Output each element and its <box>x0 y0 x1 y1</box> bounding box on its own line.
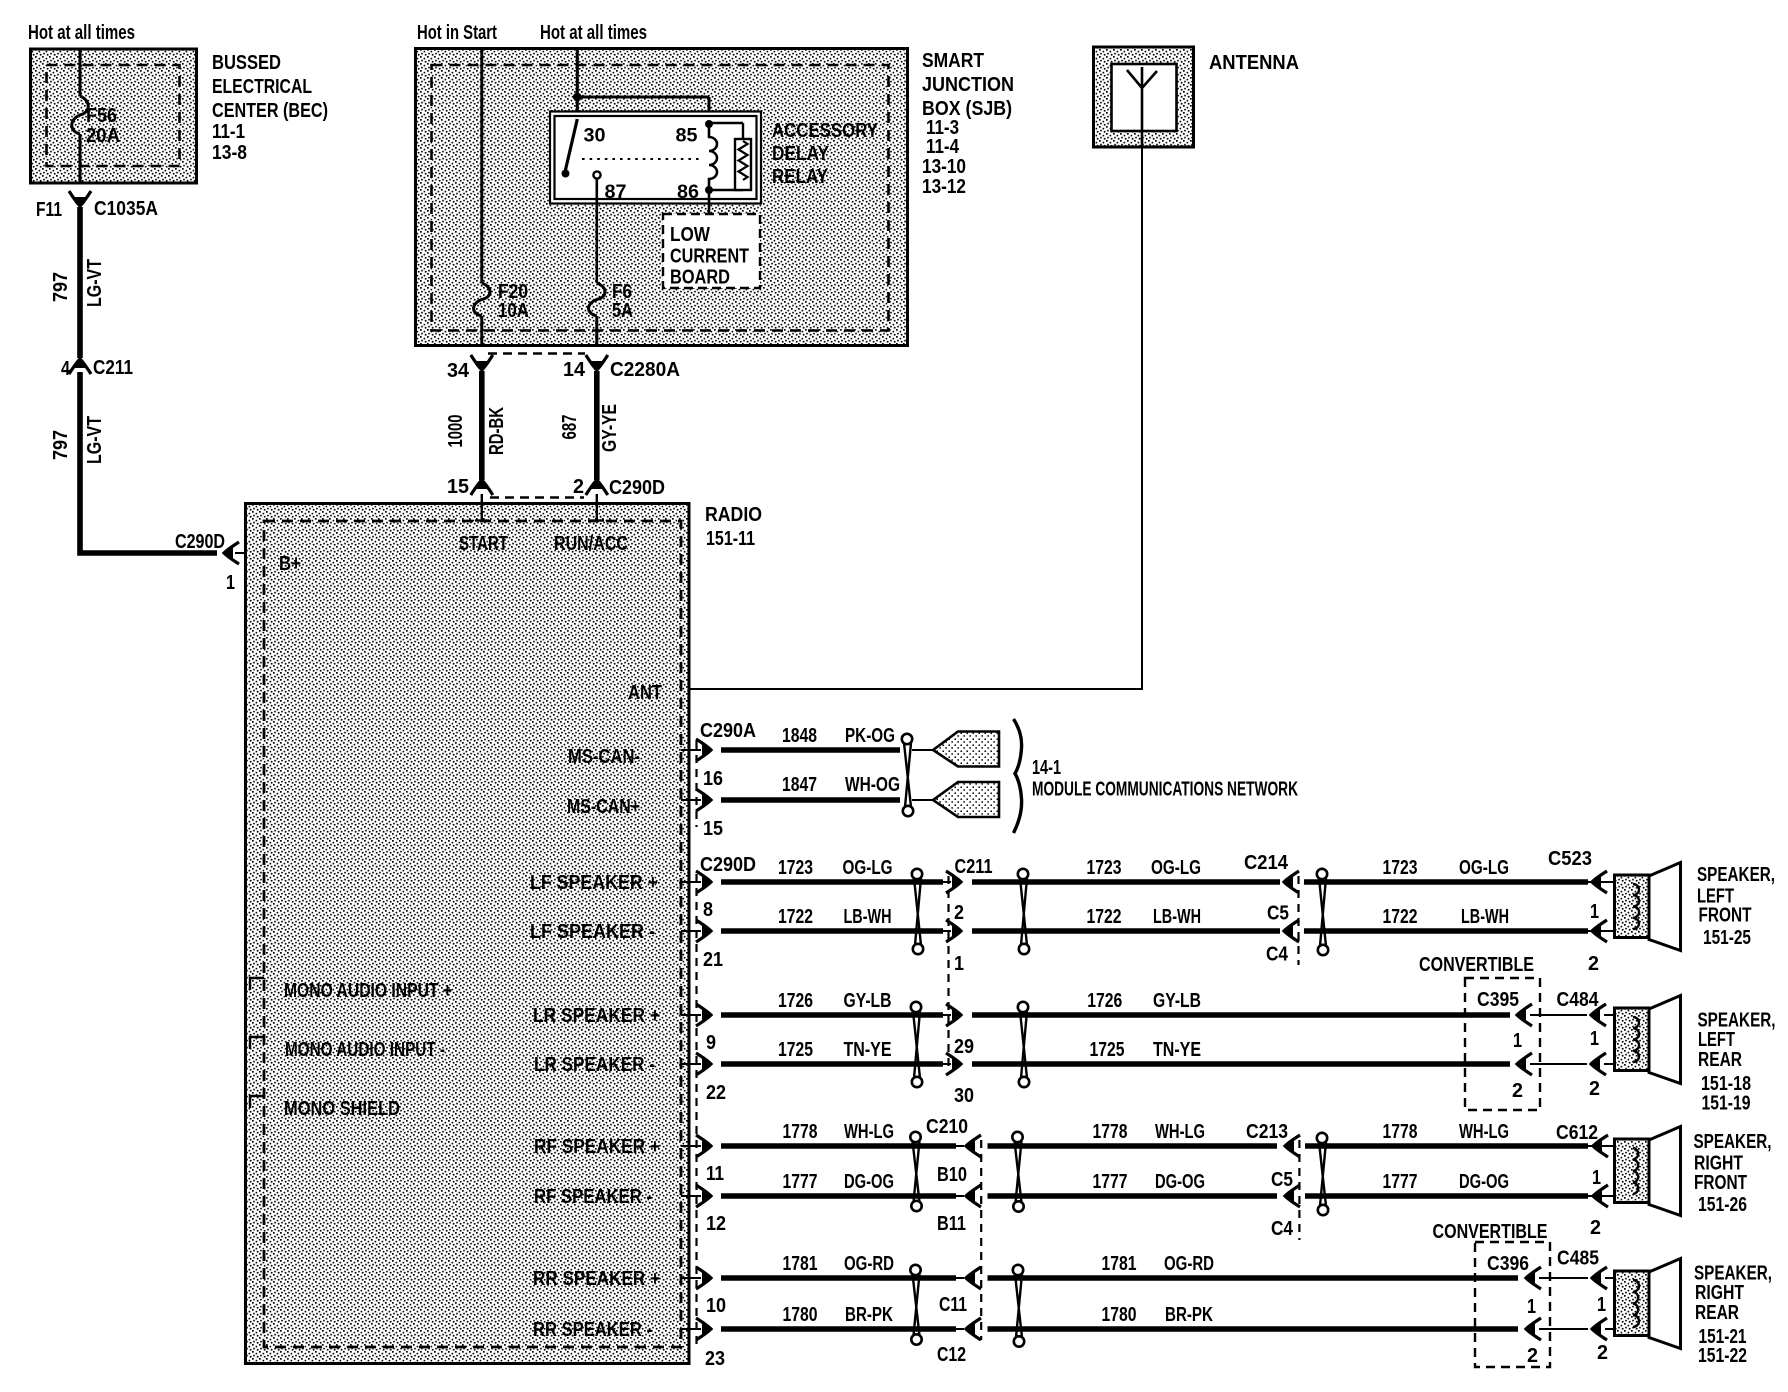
wire radio pin LR- exit + arrow <box>681 1063 701 1065</box>
svg-text:REAR: REAR <box>1695 1302 1739 1324</box>
svg-text:C213: C213 <box>1246 1121 1288 1143</box>
svg-text:1777: 1777 <box>1383 1171 1418 1193</box>
connector C210 arrow C12 <box>965 1323 975 1335</box>
wire 797 LG-VT lower segment <box>80 372 217 553</box>
wire 1777 DG-OG segment 1 <box>721 1193 956 1199</box>
svg-text:1778: 1778 <box>1383 1121 1418 1143</box>
connector C395 arrow pin 2 <box>1516 1058 1526 1070</box>
twisted pair symbol (RF seg2) <box>1012 1132 1022 1142</box>
svg-text:1780: 1780 <box>1102 1304 1137 1326</box>
svg-text:LR SPEAKER +: LR SPEAKER + <box>533 1005 660 1027</box>
svg-text:Hot at all times: Hot at all times <box>28 22 135 44</box>
svg-text:10: 10 <box>706 1295 726 1317</box>
wire BEC feed into fuse <box>79 49 82 96</box>
wire 1722 LB-WH segment 1 <box>721 928 943 934</box>
wire 1722 LB-WH segment 3 <box>1304 928 1588 934</box>
svg-text:C290A: C290A <box>700 720 756 742</box>
svg-text:16: 16 <box>703 768 723 790</box>
svg-text:30: 30 <box>584 126 606 147</box>
svg-text:15: 15 <box>447 476 469 498</box>
wire RD-BK label <box>486 407 508 455</box>
antenna box <box>1094 47 1194 147</box>
svg-text:C210: C210 <box>926 1116 968 1138</box>
relay contact (pin 87) <box>593 171 600 178</box>
wire 1778 WH-LG segment 2 <box>988 1143 1278 1149</box>
svg-text:30: 30 <box>954 1085 974 1107</box>
convertible dashed box (C395) <box>1465 978 1540 1110</box>
svg-text:CONVERTIBLE: CONVERTIBLE <box>1433 1221 1548 1243</box>
wire 1848 PK-OG <box>721 747 900 753</box>
svg-text:RR SPEAKER +: RR SPEAKER + <box>533 1268 660 1290</box>
wire Hot in Start vertical <box>480 49 483 284</box>
connector C210 arrow C11 <box>965 1272 975 1284</box>
svg-text:RD-BK: RD-BK <box>486 407 508 455</box>
speaker left front <box>1615 875 1650 938</box>
wire 687 label <box>559 415 581 440</box>
svg-text:11-1: 11-1 <box>212 121 245 143</box>
connector C523 arrow pin 1 <box>1591 876 1601 888</box>
mono audio input - stub <box>250 1037 264 1049</box>
svg-text:1777: 1777 <box>1093 1171 1128 1193</box>
antenna inner box <box>1112 64 1177 131</box>
twisted pair symbol (RR seg2) <box>1013 1265 1023 1275</box>
wire 1781 OG-RD segment 2 <box>988 1275 1519 1281</box>
svg-text:MONO AUDIO INPUT +: MONO AUDIO INPUT + <box>284 980 452 1002</box>
wire LG-VT label (lower) <box>84 416 106 464</box>
wire 1723 OG-LG segment 2 <box>972 879 1280 885</box>
svg-text:B11: B11 <box>937 1213 966 1235</box>
svg-text:22: 22 <box>706 1082 726 1104</box>
svg-text:WH-LG: WH-LG <box>844 1121 894 1143</box>
wire 797 label (lower) <box>50 430 72 460</box>
svg-text:Hot at all times: Hot at all times <box>540 22 647 44</box>
svg-text:5A: 5A <box>612 300 633 322</box>
svg-text:C211: C211 <box>93 357 133 379</box>
svg-text:B+: B+ <box>279 553 301 575</box>
low current board dashed box <box>663 214 760 288</box>
svg-text:C396: C396 <box>1487 1253 1529 1275</box>
wire Hot at all times vertical to relay 30 <box>576 49 579 121</box>
svg-text:2: 2 <box>1588 953 1599 975</box>
svg-text:SPEAKER,: SPEAKER, <box>1694 1131 1772 1153</box>
connector C290D arrow at radio B+ (pin 1) <box>223 547 233 559</box>
svg-text:4: 4 <box>61 358 71 380</box>
connector C214 arrow (C4) <box>1283 925 1293 937</box>
wire radio pin RR+ exit + arrow <box>681 1277 701 1279</box>
svg-text:151-26: 151-26 <box>1698 1194 1747 1216</box>
svg-text:12: 12 <box>706 1213 726 1235</box>
connector C484 arrow pin 1 <box>1590 1009 1600 1021</box>
svg-text:1778: 1778 <box>1093 1121 1128 1143</box>
svg-text:DG-OG: DG-OG <box>1155 1171 1205 1193</box>
wire 1725 TN-YE segment 1 <box>721 1061 943 1067</box>
svg-text:C1035A: C1035A <box>94 198 158 220</box>
svg-text:C12: C12 <box>937 1344 966 1366</box>
connector C290D dashed line (right) <box>695 874 697 1350</box>
wire pin 2 into radio (RUN/ACC) <box>596 494 598 521</box>
svg-text:C395: C395 <box>1477 989 1519 1011</box>
connector C396 arrow pin 2 <box>1525 1323 1535 1335</box>
wire radio pin MS-CAN- exit + arrow <box>681 749 701 751</box>
wire relay 87 to fuse F6 <box>595 179 598 284</box>
mono shield stub <box>250 1096 264 1108</box>
twisted pair symbol (LF seg3) <box>1317 869 1327 879</box>
svg-text:1: 1 <box>1597 1294 1606 1316</box>
svg-text:85: 85 <box>676 126 698 147</box>
connector C2280A dashed line <box>488 352 585 354</box>
wire 797 label (upper) <box>50 272 72 302</box>
wire GY-YE label <box>599 404 621 452</box>
wire radio pin LF- exit + arrow <box>681 930 701 932</box>
connector C213 dashed line <box>1298 1140 1300 1240</box>
brace for module communications network <box>1014 719 1022 833</box>
svg-text:10A: 10A <box>498 300 529 322</box>
connector C485 arrow pin 2 <box>1591 1323 1601 1335</box>
svg-text:87: 87 <box>605 182 627 203</box>
twisted pair symbol (RR seg1) <box>910 1265 920 1275</box>
svg-text:DG-OG: DG-OG <box>1459 1171 1509 1193</box>
connector C485 arrow pin 1 <box>1591 1272 1601 1284</box>
svg-text:1723: 1723 <box>1087 857 1122 879</box>
svg-text:CENTER (BEC): CENTER (BEC) <box>212 100 328 122</box>
svg-text:86: 86 <box>677 182 699 203</box>
svg-text:2: 2 <box>1589 1078 1600 1100</box>
svg-text:C2280A: C2280A <box>610 359 680 381</box>
junction node at relay feed <box>573 93 582 102</box>
svg-text:797: 797 <box>50 430 72 460</box>
svg-text:RR SPEAKER -: RR SPEAKER - <box>533 1319 652 1341</box>
svg-text:MS-CAN-: MS-CAN- <box>568 746 640 768</box>
connector C211 arrow (pin 4) <box>74 358 86 368</box>
svg-text:1723: 1723 <box>1383 857 1418 879</box>
svg-text:F56: F56 <box>86 105 117 127</box>
svg-text:ELECTRICAL: ELECTRICAL <box>212 76 312 98</box>
svg-text:C523: C523 <box>1548 848 1592 870</box>
svg-text:11: 11 <box>706 1163 724 1185</box>
relay coil <box>705 120 713 128</box>
svg-text:1781: 1781 <box>1102 1253 1137 1275</box>
svg-text:LOW: LOW <box>670 224 710 246</box>
svg-text:BR-PK: BR-PK <box>845 1304 893 1326</box>
svg-text:OG-LG: OG-LG <box>1459 857 1509 879</box>
svg-text:WH-OG: WH-OG <box>845 774 900 796</box>
svg-text:DG-OG: DG-OG <box>844 1171 894 1193</box>
connector C290D pin 2 arrow <box>591 479 603 489</box>
svg-text:C612: C612 <box>1556 1122 1598 1144</box>
svg-text:B10: B10 <box>937 1164 967 1186</box>
svg-text:23: 23 <box>705 1348 725 1370</box>
connector C395 arrow pin 1 <box>1516 1009 1526 1021</box>
svg-text:TN-YE: TN-YE <box>844 1039 892 1061</box>
connector C612 arrow pin 1 <box>1592 1140 1602 1152</box>
svg-text:RF SPEAKER -: RF SPEAKER - <box>534 1186 652 1208</box>
svg-text:151-11: 151-11 <box>706 528 755 550</box>
svg-text:1780: 1780 <box>783 1304 818 1326</box>
connector C211 arrow pin 2 <box>952 876 962 888</box>
wire radio pin RF+ exit + arrow <box>681 1145 701 1147</box>
svg-text:1: 1 <box>1513 1030 1522 1052</box>
svg-text:151-22: 151-22 <box>1698 1345 1747 1367</box>
network flag (MS-CAN-) <box>933 732 999 767</box>
wire radio pin RR- exit + arrow <box>681 1328 701 1330</box>
wire coil branch vertical to pin 85 <box>708 97 711 124</box>
svg-text:797: 797 <box>50 272 72 302</box>
connector C210 arrow B10 <box>965 1140 975 1152</box>
svg-text:29: 29 <box>954 1036 974 1058</box>
svg-text:1777: 1777 <box>783 1171 818 1193</box>
connector C211 dashed line (mid) <box>947 876 949 1072</box>
svg-text:1778: 1778 <box>783 1121 818 1143</box>
svg-text:OG-LG: OG-LG <box>843 857 893 879</box>
svg-text:1725: 1725 <box>778 1039 813 1061</box>
connector C211 arrow pin 29 <box>952 1009 962 1021</box>
svg-text:C5: C5 <box>1267 903 1289 925</box>
relay box inner border <box>555 116 757 199</box>
speaker right front <box>1615 1139 1650 1203</box>
svg-text:OG-RD: OG-RD <box>844 1253 894 1275</box>
wire relay 86 to low current board <box>708 190 711 215</box>
connector C612 arrow pin 2 <box>1592 1190 1602 1202</box>
twisted pair symbol (LR seg1) <box>911 1002 921 1012</box>
connector C210 arrow B11 <box>965 1190 975 1202</box>
svg-text:ANTENNA: ANTENNA <box>1209 52 1299 74</box>
radio inner dashed border <box>264 521 681 1347</box>
svg-text:2: 2 <box>954 902 964 924</box>
svg-text:WH-LG: WH-LG <box>1459 1121 1509 1143</box>
svg-text:C290D: C290D <box>700 854 756 876</box>
connector C214 dashed line <box>1297 876 1299 965</box>
wire radio pin MS-CAN+ exit + arrow <box>681 799 701 801</box>
svg-text:8: 8 <box>703 899 713 921</box>
connector C2280A pin 14 arrow <box>591 361 603 371</box>
svg-text:WH-LG: WH-LG <box>1155 1121 1205 1143</box>
relay linkage dotted line <box>582 158 700 160</box>
connector C396 arrow pin 1 <box>1525 1272 1535 1284</box>
svg-text:15: 15 <box>703 818 723 840</box>
BEC inner dashed border <box>47 65 180 166</box>
svg-text:C4: C4 <box>1271 1218 1294 1240</box>
svg-text:MODULE COMMUNICATIONS NETWORK: MODULE COMMUNICATIONS NETWORK <box>1032 779 1298 801</box>
svg-text:9: 9 <box>706 1032 716 1054</box>
svg-text:SMART: SMART <box>922 50 984 72</box>
svg-text:687: 687 <box>559 415 581 440</box>
wire 1847 WH-OG <box>721 797 900 803</box>
svg-text:SPEAKER,: SPEAKER, <box>1697 864 1775 886</box>
wire 1000 RD-BK <box>479 371 485 480</box>
wire 1780 BR-PK segment 2 <box>988 1326 1519 1332</box>
SJB inner dashed border <box>432 65 889 331</box>
svg-text:1726: 1726 <box>778 990 813 1012</box>
svg-text:1726: 1726 <box>1087 990 1122 1012</box>
wire F56 to BEC bottom <box>79 134 82 183</box>
svg-text:REAR: REAR <box>1698 1049 1742 1071</box>
connector C211 arrow pin 1 <box>952 925 962 937</box>
svg-text:BR-PK: BR-PK <box>1165 1304 1213 1326</box>
svg-text:1722: 1722 <box>778 906 813 928</box>
twisted pair symbol (LF seg1) <box>912 869 922 879</box>
svg-text:C290D: C290D <box>175 531 225 553</box>
wire F20 to pin 34 <box>480 316 483 346</box>
svg-text:21: 21 <box>703 949 723 971</box>
connector C211 arrow pin 30 <box>952 1058 962 1070</box>
svg-text:LF SPEAKER -: LF SPEAKER - <box>530 921 655 943</box>
connector C290D pin 15 arrow <box>476 479 488 489</box>
BEC box (Bussed Electrical Center) <box>31 49 197 183</box>
wire 1726 GY-LB segment 2 <box>972 1012 1510 1018</box>
wire 1723 OG-LG segment 1 <box>721 879 943 885</box>
svg-text:1848: 1848 <box>782 725 817 747</box>
wire radio pin RF- exit + arrow <box>681 1195 701 1197</box>
svg-text:14: 14 <box>563 359 586 381</box>
wire 797 LG-VT upper segment <box>77 207 83 358</box>
svg-text:13-8: 13-8 <box>212 142 247 164</box>
svg-text:2: 2 <box>1597 1342 1608 1364</box>
svg-text:F11: F11 <box>36 199 62 221</box>
svg-text:C211: C211 <box>955 856 993 878</box>
fuse F56 <box>72 96 89 134</box>
svg-text:1723: 1723 <box>778 857 813 879</box>
svg-text:C11: C11 <box>939 1294 967 1316</box>
svg-text:OG-RD: OG-RD <box>1164 1253 1214 1275</box>
svg-text:FRONT: FRONT <box>1699 905 1752 927</box>
wire 1777 DG-OG segment 2 <box>988 1193 1278 1199</box>
wire radio pin LR+ exit + arrow <box>681 1014 701 1016</box>
svg-text:LF SPEAKER +: LF SPEAKER + <box>530 872 658 894</box>
twisted pair symbol (MS-CAN) <box>902 734 912 744</box>
twisted pair symbol (LF seg2) <box>1018 869 1028 879</box>
svg-text:20A: 20A <box>86 125 120 147</box>
svg-text:MONO SHIELD: MONO SHIELD <box>284 1098 400 1120</box>
wire F6 to pin 14 <box>595 316 598 346</box>
svg-text:RADIO: RADIO <box>705 504 762 526</box>
svg-text:2: 2 <box>1590 1217 1601 1239</box>
svg-text:LB-WH: LB-WH <box>1461 906 1509 928</box>
svg-text:2: 2 <box>1527 1345 1538 1367</box>
svg-text:MONO AUDIO INPUT -: MONO AUDIO INPUT - <box>285 1039 445 1061</box>
wire junction to coil branch horizontal <box>577 96 709 99</box>
relay resistor R1 <box>735 139 751 190</box>
svg-text:Hot in Start: Hot in Start <box>417 22 497 44</box>
svg-text:13-10: 13-10 <box>922 156 966 178</box>
convertible dashed box (C396) <box>1475 1242 1550 1367</box>
wire pin 15 into radio (START) <box>481 494 483 521</box>
svg-text:C5: C5 <box>1271 1169 1293 1191</box>
svg-text:1: 1 <box>1592 1167 1601 1189</box>
SJB box (Smart Junction Box) <box>416 49 908 346</box>
svg-text:GY-LB: GY-LB <box>844 990 892 1012</box>
svg-text:1: 1 <box>1590 1028 1599 1050</box>
network flag (MS-CAN+) <box>933 782 999 817</box>
wire 1780 BR-PK segment 1 <box>721 1326 956 1332</box>
svg-text:C484: C484 <box>1557 989 1600 1011</box>
svg-text:LG-VT: LG-VT <box>84 416 106 464</box>
svg-text:C290D: C290D <box>609 477 665 499</box>
svg-text:FRONT: FRONT <box>1694 1172 1747 1194</box>
wire 1000 label <box>445 415 467 448</box>
svg-text:LG-VT: LG-VT <box>84 259 106 307</box>
svg-text:PK-OG: PK-OG <box>845 725 895 747</box>
svg-text:151-25: 151-25 <box>1703 927 1751 949</box>
svg-text:DELAY: DELAY <box>772 143 830 165</box>
wire antenna lead <box>681 147 1142 689</box>
svg-text:151-19: 151-19 <box>1702 1093 1751 1115</box>
wire 1778 WH-LG segment 1 <box>721 1143 956 1149</box>
connector C2280A pin 34 arrow <box>476 361 488 371</box>
connector C213 arrow (C4) <box>1284 1190 1294 1202</box>
svg-text:1725: 1725 <box>1090 1039 1125 1061</box>
speaker left rear <box>1615 1008 1650 1071</box>
connector C1035A arrow <box>74 197 86 207</box>
svg-text:1: 1 <box>954 953 964 975</box>
svg-text:1847: 1847 <box>782 774 817 796</box>
svg-text:GY-YE: GY-YE <box>599 404 621 452</box>
svg-text:RUN/ACC: RUN/ACC <box>554 533 628 555</box>
connector C290A dashed line <box>695 741 697 827</box>
svg-text:1: 1 <box>1527 1296 1536 1318</box>
wire 1778 WH-LG segment 3 <box>1305 1143 1588 1149</box>
wire 1722 LB-WH segment 2 <box>972 928 1280 934</box>
antenna symbol <box>1127 67 1157 147</box>
svg-text:C214: C214 <box>1244 852 1289 874</box>
relay box (accessory delay relay) outer <box>550 112 761 204</box>
svg-text:TN-YE: TN-YE <box>1153 1039 1201 1061</box>
svg-text:RF SPEAKER +: RF SPEAKER + <box>534 1136 660 1158</box>
wire 1725 TN-YE segment 2 <box>972 1061 1510 1067</box>
fuse F20 <box>474 283 491 316</box>
svg-text:1: 1 <box>226 572 235 594</box>
svg-text:13-12: 13-12 <box>922 176 966 198</box>
wire 1723 OG-LG segment 3 <box>1304 879 1588 885</box>
connector C214 arrow (C5) <box>1283 876 1293 888</box>
svg-text:LB-WH: LB-WH <box>844 906 892 928</box>
svg-text:LB-WH: LB-WH <box>1153 906 1201 928</box>
svg-text:ANT: ANT <box>628 682 662 704</box>
wire 1781 OG-RD segment 1 <box>721 1275 956 1281</box>
wire 1777 DG-OG segment 3 <box>1305 1193 1588 1199</box>
wire LG-VT label (upper) <box>84 259 106 307</box>
svg-text:1: 1 <box>1590 901 1599 923</box>
relay switch blade <box>565 119 577 172</box>
svg-text:JUNCTION: JUNCTION <box>922 74 1014 96</box>
svg-text:C485: C485 <box>1557 1248 1599 1270</box>
wire 687 GY-YE <box>594 371 600 480</box>
svg-text:2: 2 <box>1512 1080 1523 1102</box>
svg-text:11-4: 11-4 <box>926 136 960 158</box>
svg-text:1781: 1781 <box>783 1253 818 1275</box>
svg-text:RIGHT: RIGHT <box>1695 1282 1744 1304</box>
svg-text:34: 34 <box>447 360 470 382</box>
svg-text:CURRENT: CURRENT <box>670 246 749 268</box>
fuse F6 <box>589 283 606 316</box>
connector C210 dashed line <box>980 1140 982 1340</box>
svg-text:2: 2 <box>573 476 584 498</box>
svg-text:1000: 1000 <box>445 415 467 448</box>
connector C213 arrow (C5) <box>1284 1140 1294 1152</box>
svg-text:BUSSED: BUSSED <box>212 52 281 74</box>
twisted pair symbol (RF seg3) <box>1317 1133 1327 1143</box>
connector C484 arrow pin 2 <box>1590 1058 1600 1070</box>
wire 1726 GY-LB segment 1 <box>721 1012 943 1018</box>
speaker right rear <box>1615 1271 1650 1336</box>
svg-text:1722: 1722 <box>1383 906 1418 928</box>
mono audio input + stub <box>250 978 264 990</box>
svg-text:START: START <box>459 533 508 555</box>
svg-text:1722: 1722 <box>1087 906 1122 928</box>
svg-text:LR SPEAKER -: LR SPEAKER - <box>534 1054 655 1076</box>
radio box <box>246 504 690 1364</box>
twisted pair symbol (RF seg1) <box>910 1132 920 1142</box>
svg-text:BOARD: BOARD <box>670 267 730 289</box>
